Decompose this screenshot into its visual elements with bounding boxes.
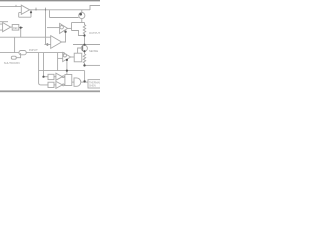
wire: drop at x=64.4 into U3b top: [63, 53, 65, 55]
wire: stub into U5 lower input: [58, 57, 63, 59]
svg-text:SENSE: SENSE: [89, 49, 98, 53]
transistor Q1: [79, 12, 85, 18]
wire: feedback line to right edge: [85, 64, 101, 66]
wire: U4 to box to node: [11, 26, 23, 29]
gate G2: [56, 81, 63, 88]
node dot gate row1: [42, 76, 44, 78]
op-amp U4: [3, 23, 11, 32]
wire: input rail to the right: [26, 52, 64, 54]
wire hop bump on left rail: [15, 5, 17, 7]
box row1: [48, 74, 54, 79]
wire: output corner up to top-right rail: [90, 6, 100, 11]
wire: G2 out to logic box: [63, 84, 66, 86]
op-amp U2: [60, 23, 68, 33]
wire: feedback vertical tap: [30, 10, 32, 17]
wire: U4 output node drop: [20, 28, 22, 38]
wire: U2 output: [68, 27, 72, 29]
wire: rail corner down to gate output node: [84, 71, 86, 82]
wire: drop at x=44 to gate row 1: [43, 53, 45, 77]
node dot Q1 top: [79, 13, 82, 16]
op-amp U5 (comparator): [63, 52, 71, 61]
wire: reference line to U3: [0, 36, 51, 38]
svg-text:REF: REF: [13, 27, 18, 30]
wire: Q1 collector to node: [72, 22, 85, 24]
wire: tick at x=36: [35, 8, 37, 10]
wire: D1 to G3: [72, 81, 74, 83]
wire: row1 box to gate: [54, 76, 56, 78]
reference circle U2: [60, 26, 63, 29]
wire: shutdown link: [16, 53, 21, 58]
wire: logic rail: [39, 70, 85, 72]
wire: drop to base line: [49, 10, 51, 17]
node dot output rail: [83, 44, 85, 46]
top page divider band: [0, 0, 100, 1]
node dot tick x36: [36, 9, 37, 11]
box right annotation: [88, 80, 100, 88]
wire: U1 feedback horizontal: [19, 16, 31, 18]
wire: tick and long vertical at x=45.5: [45, 8, 47, 45]
wire: rail into U3 lower input: [45, 44, 51, 46]
node dot U3 to U2: [64, 31, 66, 33]
bottom page divider rule: [0, 90, 100, 92]
wire: U4 input stubs: [0, 24, 3, 30]
svg-text:OUTPUT: OUTPUT: [89, 31, 100, 35]
svg-text:INPUT: INPUT: [29, 48, 38, 52]
wire stub above U4: [0, 21, 8, 23]
node dot G3 output: [83, 80, 85, 82]
resistor R2: [83, 54, 85, 66]
wire: U1 output line: [30, 9, 90, 11]
wire: G1 out to logic box: [63, 76, 66, 78]
wire: R1 bottom to output rail: [84, 36, 86, 45]
wire: base riser from box top: [78, 48, 83, 53]
svg-text:SHDN: SHDN: [89, 85, 96, 88]
box bandgap reference: [12, 25, 19, 31]
wire: lower stub to R1 bottom: [72, 31, 85, 36]
node dot tick x45.5: [45, 9, 46, 11]
box driver: [74, 53, 82, 62]
wire: U2 left input stub: [47, 27, 60, 29]
transistor Q2: [81, 45, 87, 51]
wire: row2 box to gate: [54, 84, 56, 86]
wire: input rail left of port: [0, 52, 19, 54]
node dot U5 bottom: [66, 59, 68, 61]
box logic D1: [65, 75, 72, 86]
svg-text:SHUTDOWN: SHUTDOWN: [4, 61, 20, 65]
node dot R2 bottom: [83, 64, 85, 66]
wire: drop at x=57.6: [57, 53, 59, 71]
op-amp U3 (error amp): [51, 36, 62, 49]
wire: U5 bottom tap down to logic rail: [66, 59, 68, 74]
op-amp U1: [21, 5, 29, 14]
node dot R1 bottom: [83, 34, 85, 36]
box row2: [48, 82, 54, 87]
node dot U4 output: [20, 27, 22, 29]
wire: U3 output up to U2: [62, 32, 66, 42]
wire: G3 output to box: [81, 81, 88, 83]
gate G3: [74, 78, 81, 86]
node dot U1 feedback: [30, 11, 32, 13]
gate G1: [56, 73, 63, 80]
node dot logic rail: [66, 70, 68, 72]
wire: U1 feedback riser: [19, 13, 22, 18]
wire: drop at x=38.6 to logic rail: [39, 53, 48, 85]
reference circle U5: [63, 54, 66, 57]
wire: U5 output to driver box: [71, 56, 75, 58]
wire: left rail into U1 top input: [0, 6, 21, 8]
node dot error amp input: [46, 43, 48, 45]
wire: vertical at x=71.5: [71, 23, 73, 31]
wire: base drive line to Q1: [50, 17, 79, 19]
wire: gate row 1: [44, 76, 49, 78]
wire: output rail to right edge: [73, 44, 100, 46]
resistor R1: [83, 23, 85, 36]
port SHUTDOWN: [11, 56, 16, 59]
wire: vertical from node A down to input rail: [14, 37, 16, 52]
port INPUT: [19, 51, 26, 55]
node dot Q2 emitter: [83, 50, 85, 52]
